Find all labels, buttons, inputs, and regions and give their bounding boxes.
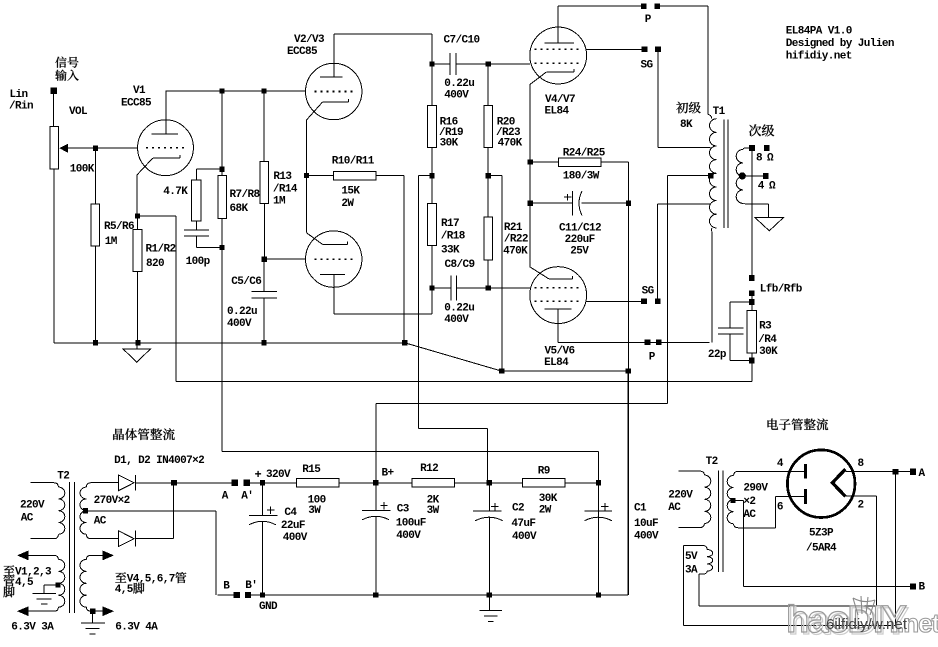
svg-text:30K: 30K xyxy=(440,138,459,150)
svg-text:220uF: 220uF xyxy=(565,234,595,246)
svg-text:6: 6 xyxy=(777,501,783,513)
svg-text:B+: B+ xyxy=(382,468,395,480)
svg-text:×2: ×2 xyxy=(743,496,755,508)
svg-text:220V: 220V xyxy=(668,490,693,502)
svg-text:R5/R6: R5/R6 xyxy=(104,221,134,233)
svg-text:V5/V6: V5/V6 xyxy=(545,346,575,358)
svg-text:4,5: 4,5 xyxy=(15,577,34,589)
svg-text:AC: AC xyxy=(743,509,756,521)
svg-text:Ω: Ω xyxy=(769,181,776,193)
svg-text:ECC85: ECC85 xyxy=(121,97,152,109)
svg-text:R10/R11: R10/R11 xyxy=(332,156,375,168)
svg-text:400V: 400V xyxy=(634,530,659,542)
svg-text:400V: 400V xyxy=(444,90,469,102)
svg-text:22uF: 22uF xyxy=(281,520,305,532)
svg-text:Ω: Ω xyxy=(767,152,774,164)
svg-text:8: 8 xyxy=(756,152,763,164)
svg-text:290V: 290V xyxy=(743,482,768,494)
svg-text:C1: C1 xyxy=(634,503,647,515)
svg-text:/R14: /R14 xyxy=(273,183,298,195)
svg-text:/R4: /R4 xyxy=(758,334,777,346)
svg-text:8K: 8K xyxy=(680,119,693,131)
svg-text:Lfb/Rfb: Lfb/Rfb xyxy=(760,283,803,295)
svg-text:470K: 470K xyxy=(498,138,523,150)
svg-text:V2/V3: V2/V3 xyxy=(294,34,325,46)
svg-text:A: A xyxy=(919,468,926,480)
svg-text:Designed by Julien: Designed by Julien xyxy=(786,38,894,50)
svg-text:AC: AC xyxy=(94,515,107,527)
svg-text:100K: 100K xyxy=(70,163,95,175)
svg-text:R24/R25: R24/R25 xyxy=(563,148,606,160)
svg-text:6.3V 4A: 6.3V 4A xyxy=(115,622,158,634)
svg-text:A': A' xyxy=(241,490,253,502)
svg-text:470K: 470K xyxy=(503,245,528,257)
svg-text:C3: C3 xyxy=(397,504,410,516)
svg-text:VOL: VOL xyxy=(69,106,88,118)
svg-text:4: 4 xyxy=(777,458,784,470)
svg-text:C11/C12: C11/C12 xyxy=(559,223,601,235)
svg-text:A: A xyxy=(222,490,229,502)
svg-text:+: + xyxy=(255,468,262,482)
svg-text:270V×2: 270V×2 xyxy=(94,495,130,507)
svg-text:5Z3P: 5Z3P xyxy=(809,527,834,539)
svg-text:15K: 15K xyxy=(341,186,360,198)
svg-text:820: 820 xyxy=(146,258,164,270)
svg-text:2: 2 xyxy=(858,500,864,512)
svg-text:0.22u: 0.22u xyxy=(444,78,474,90)
svg-text:320V: 320V xyxy=(266,469,291,481)
svg-text:R21: R21 xyxy=(504,222,523,234)
svg-text:D1, D2 IN4007×2: D1, D2 IN4007×2 xyxy=(114,455,204,467)
svg-text:SG: SG xyxy=(641,60,654,72)
svg-text:R13: R13 xyxy=(273,171,292,183)
svg-text:30K: 30K xyxy=(759,346,778,358)
svg-text:22p: 22p xyxy=(708,349,727,361)
svg-text:GND: GND xyxy=(259,601,278,613)
svg-text:6.3V 3A: 6.3V 3A xyxy=(11,622,54,634)
svg-text:EL84: EL84 xyxy=(545,106,570,118)
svg-text:2W: 2W xyxy=(341,198,354,210)
svg-text:0.22u: 0.22u xyxy=(444,302,474,314)
svg-text:8: 8 xyxy=(858,458,865,470)
svg-text:R1/R2: R1/R2 xyxy=(146,244,176,256)
svg-text:400V: 400V xyxy=(444,314,469,326)
svg-text:180/3W: 180/3W xyxy=(563,171,600,183)
svg-text:/R22: /R22 xyxy=(504,234,528,246)
svg-text:47uF: 47uF xyxy=(511,518,535,530)
svg-text:B: B xyxy=(223,581,230,593)
svg-text:T1: T1 xyxy=(713,106,726,118)
svg-text:R15: R15 xyxy=(302,464,321,476)
svg-text:/5AR4: /5AR4 xyxy=(806,542,837,554)
svg-text:68K: 68K xyxy=(230,203,249,215)
svg-text:3W: 3W xyxy=(308,505,321,517)
svg-text:B: B xyxy=(919,581,926,593)
svg-text:33K: 33K xyxy=(441,244,460,256)
svg-text:1M: 1M xyxy=(105,236,118,248)
svg-text:C2: C2 xyxy=(512,503,524,515)
svg-text:4.7K: 4.7K xyxy=(163,186,188,198)
svg-text:R3: R3 xyxy=(759,321,772,333)
svg-text:0.22u: 0.22u xyxy=(227,306,257,318)
svg-text:4: 4 xyxy=(758,181,765,193)
svg-text:5V: 5V xyxy=(685,551,698,563)
svg-text:1M: 1M xyxy=(273,196,286,208)
svg-text:R12: R12 xyxy=(420,463,438,475)
svg-text:/R18: /R18 xyxy=(441,231,466,243)
svg-text:C5/C6: C5/C6 xyxy=(231,276,261,288)
svg-text:400V: 400V xyxy=(283,532,308,544)
svg-text:10uF: 10uF xyxy=(634,518,658,530)
svg-text:400V: 400V xyxy=(396,530,421,542)
svg-text:30K: 30K xyxy=(539,493,558,505)
svg-text:V1: V1 xyxy=(133,85,146,97)
svg-text:SG: SG xyxy=(642,286,655,298)
svg-text:2W: 2W xyxy=(539,505,552,517)
svg-text:220V: 220V xyxy=(20,499,45,511)
svg-text:R17: R17 xyxy=(441,218,459,230)
svg-text:P: P xyxy=(649,352,656,364)
svg-text:400V: 400V xyxy=(512,531,537,543)
svg-text:B': B' xyxy=(245,580,257,592)
svg-text:4,5: 4,5 xyxy=(115,584,134,596)
svg-text:AC: AC xyxy=(21,513,34,525)
svg-text:T2: T2 xyxy=(57,471,69,483)
svg-text:100p: 100p xyxy=(186,256,211,268)
svg-text:Lin: Lin xyxy=(10,89,28,101)
svg-text:T2: T2 xyxy=(706,456,718,468)
svg-text:ECC85: ECC85 xyxy=(287,46,318,58)
svg-text:400V: 400V xyxy=(227,318,252,330)
svg-text:3A: 3A xyxy=(685,564,698,576)
svg-text:6ilfidiy/w.net: 6ilfidiy/w.net xyxy=(826,616,908,633)
svg-text:P: P xyxy=(645,14,652,26)
svg-text:AC: AC xyxy=(668,502,681,514)
svg-text:EL84: EL84 xyxy=(544,357,569,369)
svg-text:3W: 3W xyxy=(427,505,440,517)
svg-text:R7/R8: R7/R8 xyxy=(230,189,261,201)
svg-text:R9: R9 xyxy=(538,465,550,477)
svg-text:EL84PA V1.0: EL84PA V1.0 xyxy=(786,25,852,37)
svg-text:C8/C9: C8/C9 xyxy=(445,259,475,271)
svg-text:C4: C4 xyxy=(284,507,297,519)
svg-text:/Rin: /Rin xyxy=(9,100,33,112)
svg-text:C7/C10: C7/C10 xyxy=(444,35,480,47)
svg-text:hifidiy.net: hifidiy.net xyxy=(786,51,852,63)
svg-text:V4/V7: V4/V7 xyxy=(545,94,575,106)
svg-text:100uF: 100uF xyxy=(396,518,426,530)
svg-text:25V: 25V xyxy=(570,246,589,258)
